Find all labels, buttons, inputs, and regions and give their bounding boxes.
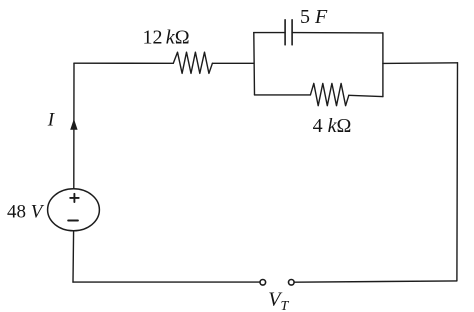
svg-text:I: I	[47, 109, 56, 130]
node box left edge	[253, 33, 256, 95]
svg-text:VT: VT	[268, 289, 289, 312]
current arrow I head	[70, 119, 77, 130]
wire left vertical upper (source to top corner)	[73, 63, 75, 189]
svg-text:4 kΩ: 4 kΩ	[313, 115, 352, 137]
terminal node right open circle	[289, 280, 295, 286]
wire from box to top-right corner	[383, 62, 458, 65]
wire top-left horizontal (top edge)	[74, 62, 173, 64]
svg-text:kΩ: kΩ	[166, 26, 190, 48]
resistor R2 4 kOhm zigzag	[310, 83, 348, 105]
voltage source V1 ellipse	[48, 189, 100, 231]
terminal node left open circle	[260, 280, 266, 286]
capacitor C1 plate left	[284, 20, 286, 45]
wire box top edge left of capacitor	[254, 32, 285, 34]
wire left vertical lower (source to bottom corner)	[72, 230, 75, 282]
resistor R1 12 kOhm zigzag	[173, 52, 212, 73]
wire bottom from left corner to left terminal	[73, 281, 260, 283]
wire right vertical	[456, 63, 459, 281]
wire bottom from right corner to right terminal	[294, 281, 457, 282]
svg-text:5 F: 5 F	[300, 6, 328, 28]
svg-text:48 V: 48 V	[7, 201, 45, 222]
wire box top edge right of capacitor	[292, 32, 383, 34]
wire from R1 to parallel box	[212, 62, 253, 64]
node box right edge	[382, 33, 384, 97]
svg-text:12: 12	[143, 26, 163, 48]
wire box bottom edge right of R2	[349, 95, 383, 96]
wire box bottom edge left of R2	[255, 94, 311, 96]
voltage source plus sign	[70, 194, 79, 202]
capacitor C1 plate right	[291, 20, 293, 45]
voltage source minus sign	[68, 220, 78, 222]
